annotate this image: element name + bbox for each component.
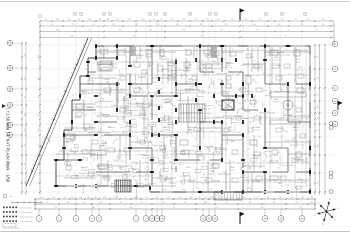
svg-text:405: 405 — [318, 144, 320, 147]
svg-text:22: 22 — [74, 14, 76, 16]
svg-text:125: 125 — [88, 19, 91, 21]
svg-text:60: 60 — [267, 197, 269, 199]
svg-text:95: 95 — [153, 19, 155, 21]
svg-text:45: 45 — [217, 180, 219, 182]
svg-text:90: 90 — [308, 19, 310, 21]
svg-text:240: 240 — [212, 49, 215, 51]
svg-text:125: 125 — [254, 197, 257, 199]
svg-text:h:260: h:260 — [121, 169, 125, 171]
svg-text:15: 15 — [193, 79, 195, 81]
svg-text:110: 110 — [209, 67, 212, 69]
svg-text:MUTFAK: MUTFAK — [138, 76, 147, 79]
svg-text:15: 15 — [159, 175, 161, 177]
svg-text:260: 260 — [154, 81, 157, 83]
svg-text:h=2.60: h=2.60 — [89, 129, 94, 131]
svg-text:120: 120 — [268, 180, 271, 182]
svg-text:90: 90 — [257, 29, 259, 31]
svg-text:110: 110 — [322, 24, 325, 26]
svg-text:310: 310 — [210, 165, 213, 167]
svg-text:ODA: ODA — [230, 140, 235, 143]
svg-text:205: 205 — [264, 189, 267, 191]
svg-text:h:260: h:260 — [285, 185, 289, 187]
svg-text:60: 60 — [218, 55, 220, 57]
svg-text:120: 120 — [68, 149, 71, 151]
svg-text:15: 15 — [230, 83, 232, 85]
svg-text:240: 240 — [288, 180, 291, 182]
svg-text:210: 210 — [161, 202, 164, 204]
svg-text:85: 85 — [65, 141, 67, 143]
svg-text:45: 45 — [236, 150, 238, 152]
svg-text:205: 205 — [84, 115, 87, 117]
svg-text:240: 240 — [205, 69, 208, 71]
svg-text:405: 405 — [135, 24, 138, 26]
svg-text:8.25 m2: 8.25 m2 — [163, 157, 169, 159]
svg-text:120: 120 — [160, 149, 163, 151]
svg-text:h=2.60: h=2.60 — [229, 169, 234, 171]
svg-text:85: 85 — [217, 116, 219, 118]
svg-text:85: 85 — [69, 170, 71, 172]
svg-text:260: 260 — [104, 148, 107, 150]
svg-text:45: 45 — [281, 185, 283, 187]
svg-text:95: 95 — [94, 113, 96, 115]
svg-text:55: 55 — [74, 93, 76, 95]
svg-text:9: 9 — [156, 14, 157, 16]
svg-text:22: 22 — [265, 14, 267, 16]
svg-text:NOT: olculer cm'dir.: NOT: olculer cm'dir. — [3, 226, 20, 229]
svg-text:210: 210 — [210, 197, 213, 199]
svg-text:120: 120 — [232, 119, 235, 121]
svg-text:90: 90 — [161, 19, 163, 21]
svg-text:240: 240 — [81, 105, 84, 107]
svg-text:210: 210 — [99, 202, 102, 204]
svg-text:85: 85 — [303, 49, 305, 51]
svg-text:15: 15 — [82, 101, 84, 103]
svg-text:12.40 m2: 12.40 m2 — [252, 129, 259, 131]
svg-text:55: 55 — [221, 154, 223, 156]
svg-text:130: 130 — [38, 77, 40, 80]
svg-text:60: 60 — [38, 144, 40, 146]
svg-text:340: 340 — [56, 29, 59, 31]
svg-text:11: 11 — [149, 14, 151, 16]
svg-text:340: 340 — [253, 24, 256, 26]
svg-text:240: 240 — [246, 73, 249, 75]
svg-text:25: 25 — [316, 29, 318, 31]
svg-text:70: 70 — [179, 69, 181, 71]
svg-text:90: 90 — [266, 111, 268, 113]
svg-text:125: 125 — [178, 197, 181, 199]
svg-text:275: 275 — [54, 207, 57, 209]
svg-text:28: 28 — [189, 14, 191, 16]
svg-text:85: 85 — [133, 161, 135, 163]
svg-text:85: 85 — [220, 91, 222, 93]
svg-text:85: 85 — [52, 197, 54, 199]
svg-text:125: 125 — [290, 197, 293, 199]
svg-text:45: 45 — [190, 133, 192, 135]
svg-text:130: 130 — [91, 207, 94, 209]
svg-text:120: 120 — [63, 147, 66, 149]
svg-text:300: 300 — [94, 197, 97, 199]
svg-text:125: 125 — [215, 207, 218, 209]
svg-text:85: 85 — [116, 99, 118, 101]
svg-text:275: 275 — [318, 181, 320, 184]
svg-text:85: 85 — [232, 73, 234, 75]
svg-text:25: 25 — [145, 197, 147, 199]
svg-text:205: 205 — [105, 117, 108, 119]
svg-text:duvar taramasi: duvar taramasi — [20, 206, 33, 209]
svg-text:150: 150 — [277, 24, 280, 26]
svg-text:455: 455 — [133, 35, 136, 37]
svg-text:170: 170 — [210, 189, 213, 191]
svg-text:455: 455 — [259, 19, 262, 21]
svg-text:MUTFAK: MUTFAK — [252, 180, 261, 183]
svg-text:455: 455 — [176, 24, 179, 26]
svg-text:130: 130 — [129, 207, 132, 209]
svg-text:MUTFAK: MUTFAK — [284, 114, 293, 117]
svg-text:210: 210 — [116, 19, 119, 21]
svg-text:h:260: h:260 — [162, 155, 166, 157]
svg-text:405: 405 — [310, 202, 313, 204]
svg-text:275: 275 — [294, 19, 297, 21]
svg-text:85: 85 — [106, 49, 108, 51]
svg-text:70: 70 — [285, 35, 287, 37]
svg-text:275: 275 — [217, 19, 220, 21]
svg-text:120: 120 — [228, 60, 231, 62]
svg-text:85: 85 — [196, 79, 198, 81]
svg-text:11: 11 — [209, 14, 211, 16]
svg-text:45: 45 — [164, 180, 166, 182]
svg-text:240: 240 — [193, 180, 196, 182]
svg-text:60: 60 — [187, 76, 189, 78]
svg-text:240: 240 — [207, 73, 210, 75]
svg-text:85: 85 — [202, 35, 204, 37]
svg-text:25: 25 — [164, 86, 166, 88]
svg-text:85: 85 — [169, 161, 171, 163]
svg-text:85: 85 — [195, 138, 197, 140]
svg-text:85: 85 — [201, 60, 203, 62]
svg-text:25: 25 — [253, 80, 255, 82]
svg-text:70: 70 — [46, 202, 48, 204]
svg-text:45: 45 — [168, 116, 170, 118]
svg-text:BALKON: BALKON — [294, 158, 303, 161]
svg-text:18: 18 — [80, 14, 82, 16]
svg-text:110: 110 — [318, 129, 320, 132]
svg-text:h:260: h:260 — [185, 167, 191, 169]
svg-text:125: 125 — [206, 19, 209, 21]
svg-text:455: 455 — [24, 181, 26, 184]
svg-text:25: 25 — [173, 207, 175, 209]
svg-text:25: 25 — [201, 90, 203, 92]
svg-text:45: 45 — [194, 73, 196, 75]
svg-text:3.05 m2: 3.05 m2 — [273, 101, 279, 103]
svg-text:205: 205 — [118, 75, 121, 77]
svg-text:120: 120 — [226, 128, 229, 130]
svg-text:275: 275 — [318, 93, 320, 96]
svg-text:85: 85 — [207, 91, 209, 93]
svg-text:455: 455 — [24, 129, 26, 132]
svg-text:h:260: h:260 — [297, 179, 303, 181]
svg-text:165: 165 — [99, 19, 102, 21]
svg-text:240: 240 — [148, 91, 151, 93]
svg-text:120: 120 — [216, 73, 219, 75]
svg-text:85: 85 — [68, 155, 70, 157]
svg-text:3.05 m2: 3.05 m2 — [295, 61, 301, 63]
svg-text:125: 125 — [242, 197, 245, 199]
svg-text:25: 25 — [40, 197, 42, 199]
svg-text:150: 150 — [310, 197, 313, 199]
svg-text:110: 110 — [260, 207, 263, 209]
svg-text:85: 85 — [191, 116, 193, 118]
svg-text:205: 205 — [78, 99, 81, 101]
svg-text:25: 25 — [296, 143, 298, 145]
svg-text:25: 25 — [76, 148, 78, 150]
svg-text:90: 90 — [129, 19, 131, 21]
svg-text:110: 110 — [113, 197, 116, 199]
svg-text:8.25 m2: 8.25 m2 — [297, 69, 303, 71]
svg-text:60: 60 — [185, 63, 187, 65]
svg-text:25: 25 — [200, 111, 202, 113]
svg-text:85: 85 — [277, 53, 279, 55]
svg-text:120: 120 — [113, 105, 116, 107]
svg-text:25: 25 — [240, 134, 242, 136]
svg-text:405: 405 — [200, 24, 203, 26]
svg-text:h:260: h:260 — [179, 164, 183, 166]
svg-text:165: 165 — [301, 24, 304, 26]
svg-text:60: 60 — [230, 88, 232, 90]
svg-text:240: 240 — [131, 130, 134, 132]
svg-text:95: 95 — [273, 202, 275, 204]
svg-text:120: 120 — [111, 60, 114, 62]
svg-text:275: 275 — [243, 175, 246, 177]
svg-text:205: 205 — [160, 142, 163, 144]
svg-text:405: 405 — [318, 105, 320, 108]
svg-text:85: 85 — [245, 100, 247, 102]
svg-text:8.25 m2: 8.25 m2 — [273, 59, 279, 61]
svg-text:165: 165 — [24, 144, 26, 147]
svg-text:340: 340 — [87, 197, 90, 199]
svg-text:130: 130 — [318, 77, 320, 80]
svg-text:260: 260 — [85, 69, 88, 71]
svg-text:15: 15 — [129, 175, 131, 177]
svg-text:120: 120 — [203, 130, 206, 132]
svg-text:60: 60 — [24, 96, 26, 98]
svg-text:120: 120 — [290, 165, 293, 167]
svg-text:95: 95 — [150, 113, 152, 115]
svg-text:90: 90 — [93, 24, 95, 26]
svg-text:85: 85 — [124, 197, 126, 199]
svg-text:130: 130 — [322, 19, 325, 21]
svg-text:85: 85 — [196, 161, 198, 163]
svg-text:170: 170 — [207, 149, 210, 151]
svg-text:240: 240 — [160, 130, 163, 132]
svg-text:45: 45 — [285, 49, 287, 51]
svg-text:85: 85 — [166, 137, 168, 139]
svg-text:240: 240 — [168, 119, 171, 121]
svg-text:170: 170 — [165, 153, 168, 155]
svg-text:55: 55 — [102, 141, 104, 143]
svg-text:125: 125 — [220, 29, 223, 31]
svg-text:90: 90 — [271, 19, 273, 21]
svg-text:300: 300 — [38, 55, 40, 58]
svg-text:45: 45 — [92, 143, 94, 145]
svg-text:15: 15 — [71, 142, 73, 144]
svg-text:85: 85 — [229, 130, 231, 132]
svg-text:20: 20 — [304, 14, 306, 16]
svg-text:85: 85 — [159, 161, 161, 163]
svg-text:165: 165 — [225, 24, 228, 26]
svg-text:120: 120 — [120, 105, 123, 107]
svg-text:12.40 m2: 12.40 m2 — [186, 81, 193, 83]
svg-text:455: 455 — [183, 19, 186, 21]
svg-text:95: 95 — [89, 29, 91, 31]
svg-text:120: 120 — [99, 174, 102, 176]
svg-text:275: 275 — [38, 181, 40, 184]
svg-text:25: 25 — [121, 125, 123, 127]
svg-text:( +1.50 kota ) 3. KAT PLANI öl: ( +1.50 kota ) 3. KAT PLANI ölçek : 1/50 — [6, 108, 11, 183]
svg-text:120: 120 — [288, 73, 291, 75]
svg-text:275: 275 — [223, 173, 226, 175]
svg-text:275: 275 — [318, 162, 320, 165]
svg-text:45: 45 — [192, 91, 194, 93]
svg-text:12.40 m2: 12.40 m2 — [86, 109, 93, 111]
svg-text:12.40 m2: 12.40 m2 — [162, 129, 169, 131]
svg-text:150: 150 — [295, 202, 298, 204]
svg-text:45: 45 — [123, 49, 125, 51]
svg-text:120: 120 — [140, 51, 143, 53]
svg-text:45: 45 — [337, 208, 339, 210]
svg-text:120: 120 — [222, 83, 225, 85]
svg-text:25: 25 — [279, 197, 281, 199]
svg-text:70: 70 — [299, 207, 301, 209]
svg-text:45: 45 — [262, 49, 264, 51]
svg-text:15: 15 — [302, 186, 304, 188]
svg-text:WC: WC — [144, 179, 148, 181]
svg-text:45: 45 — [220, 161, 222, 163]
svg-text:15: 15 — [230, 127, 232, 129]
svg-text:170: 170 — [71, 95, 74, 97]
svg-text:15: 15 — [267, 186, 269, 188]
svg-text:125: 125 — [231, 19, 234, 21]
svg-text:25: 25 — [175, 61, 177, 63]
svg-text:45: 45 — [232, 49, 234, 51]
svg-text:85: 85 — [220, 110, 222, 112]
svg-text:15: 15 — [334, 220, 336, 222]
svg-text:95: 95 — [296, 83, 298, 85]
svg-text:40: 40 — [273, 51, 275, 53]
svg-text:12.40 m2: 12.40 m2 — [100, 145, 107, 147]
svg-text:240: 240 — [67, 174, 70, 176]
svg-text:3.05 m2: 3.05 m2 — [209, 173, 215, 175]
svg-text:165: 165 — [38, 129, 40, 132]
svg-text:12.40 m2: 12.40 m2 — [252, 67, 259, 69]
svg-text:15: 15 — [138, 175, 140, 177]
svg-text:340: 340 — [204, 202, 207, 204]
svg-text:45: 45 — [161, 185, 163, 187]
svg-text:h:260: h:260 — [277, 152, 281, 154]
svg-text:120: 120 — [279, 164, 282, 166]
svg-text:85: 85 — [263, 73, 265, 75]
svg-text:120: 120 — [84, 130, 87, 132]
svg-text:45: 45 — [301, 73, 303, 75]
svg-text:455: 455 — [195, 19, 198, 21]
svg-text:85: 85 — [171, 135, 173, 137]
svg-text:16: 16 — [322, 224, 324, 226]
svg-text:405: 405 — [56, 19, 59, 21]
svg-text:90: 90 — [78, 19, 80, 21]
svg-text:340: 340 — [107, 19, 110, 21]
svg-text:85: 85 — [137, 105, 139, 107]
svg-text:ANTRE: ANTRE — [75, 116, 82, 119]
svg-text:240: 240 — [174, 73, 177, 75]
svg-text:240: 240 — [97, 105, 100, 107]
svg-text:260: 260 — [304, 52, 307, 54]
svg-text:130: 130 — [82, 202, 85, 204]
svg-text:85: 85 — [126, 73, 128, 75]
svg-text:205: 205 — [145, 73, 148, 75]
svg-text:310: 310 — [100, 113, 103, 115]
svg-text:120: 120 — [202, 109, 205, 111]
svg-text:165: 165 — [245, 19, 248, 21]
svg-text:45: 45 — [180, 180, 182, 182]
svg-text:85: 85 — [165, 101, 167, 103]
svg-text:85: 85 — [198, 197, 200, 199]
svg-text:210: 210 — [119, 29, 122, 31]
svg-text:60: 60 — [203, 104, 205, 106]
svg-text:240: 240 — [135, 91, 138, 93]
svg-text:45: 45 — [185, 49, 187, 51]
svg-text:15: 15 — [250, 104, 252, 106]
svg-text:120: 120 — [232, 161, 235, 163]
svg-text:85: 85 — [244, 151, 246, 153]
svg-text:15: 15 — [103, 14, 105, 16]
svg-text:25: 25 — [225, 202, 227, 204]
svg-text:170: 170 — [212, 127, 215, 129]
svg-text:60: 60 — [24, 163, 26, 165]
svg-text:120: 120 — [140, 49, 143, 51]
svg-text:310: 310 — [258, 136, 261, 138]
svg-text:340: 340 — [149, 29, 152, 31]
svg-text:tesisat taramasi: tesisat taramasi — [20, 216, 34, 219]
svg-text:55: 55 — [159, 53, 161, 55]
svg-text:8.25 m2: 8.25 m2 — [137, 57, 143, 59]
svg-text:110: 110 — [38, 163, 40, 166]
svg-text:70: 70 — [140, 202, 142, 204]
svg-text:240: 240 — [237, 116, 240, 118]
svg-text:165: 165 — [71, 35, 74, 37]
svg-text:455: 455 — [155, 197, 158, 199]
svg-text:h:260: h:260 — [112, 172, 116, 174]
svg-text:25: 25 — [184, 160, 186, 162]
svg-text:240: 240 — [203, 174, 206, 176]
svg-text:90: 90 — [167, 197, 169, 199]
svg-text:13: 13 — [281, 14, 283, 16]
svg-text:45: 45 — [82, 174, 84, 176]
svg-text:85: 85 — [161, 176, 163, 178]
svg-text:120: 120 — [146, 166, 149, 168]
svg-text:85: 85 — [89, 140, 91, 142]
svg-text:165: 165 — [112, 24, 115, 26]
svg-text:120: 120 — [145, 161, 148, 163]
svg-text:340: 340 — [281, 19, 284, 21]
svg-text:310: 310 — [190, 53, 193, 55]
svg-text:25: 25 — [38, 96, 40, 98]
svg-text:150: 150 — [66, 202, 69, 204]
svg-text:95: 95 — [288, 29, 290, 31]
svg-text:85: 85 — [265, 116, 267, 118]
svg-text:240: 240 — [263, 161, 266, 163]
svg-text:310: 310 — [253, 61, 256, 63]
svg-text:165: 165 — [192, 98, 195, 100]
svg-text:240: 240 — [85, 149, 88, 151]
